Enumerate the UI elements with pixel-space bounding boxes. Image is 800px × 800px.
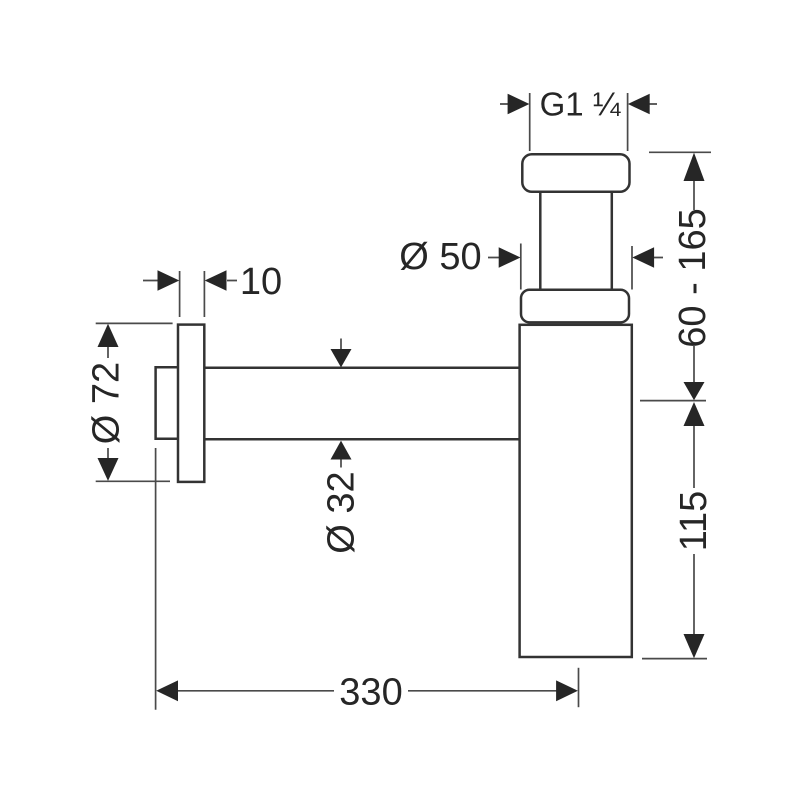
svg-text:G1 ¼: G1 ¼ — [540, 86, 621, 123]
svg-text:330: 330 — [339, 671, 402, 713]
top nut flange — [522, 154, 629, 192]
dim 10 right arrowhead — [205, 270, 227, 291]
wall pipe stub — [156, 367, 178, 439]
dim 115 bottom arrowhead — [684, 634, 705, 658]
dim 330 left extension line — [155, 448, 157, 710]
dim 60-165 top arrowhead — [684, 153, 705, 181]
horizontal outlet pipe — [204, 368, 519, 439]
lower collar flange — [521, 290, 629, 323]
dim 10 arrow tails — [143, 280, 237, 282]
dim 10 extension lines — [180, 271, 205, 317]
svg-text:115: 115 — [673, 491, 715, 552]
dim 115 dimension line — [693, 425, 695, 635]
dim 330 dimension line — [178, 690, 558, 692]
dim 330 right extension line — [578, 668, 580, 707]
dim G1 1/4 arrow tails — [500, 103, 657, 105]
dim O72 top arrowhead — [98, 324, 119, 347]
dim G1 1/4 left arrowhead — [508, 94, 530, 115]
svg-text:Ø 50: Ø 50 — [399, 236, 481, 278]
trap body cup — [520, 325, 632, 657]
dim 10 left arrowhead — [158, 270, 180, 291]
dim 330 right arrowhead — [556, 680, 578, 701]
dim G1 1/4 right arrowhead — [628, 94, 650, 115]
dim O72 bottom arrowhead — [98, 458, 119, 481]
dim 60-165 dimension line — [693, 180, 695, 383]
dim O72 dimension line — [107, 346, 109, 459]
dim O72 extension lines — [96, 323, 173, 481]
dim 60-165 bottom arrowhead — [684, 382, 705, 400]
dim 115 top arrowhead — [684, 402, 705, 426]
dim G1 1/4 extension lines — [530, 93, 628, 151]
svg-text:Ø 32: Ø 32 — [321, 471, 363, 553]
dim O50 left arrowhead — [499, 247, 521, 268]
dim O32 top arrowhead — [331, 349, 352, 367]
dim O50 extension lines — [521, 244, 632, 290]
dim O32 arrow tails — [340, 339, 342, 468]
svg-text:10: 10 — [240, 261, 282, 303]
dim 60-165 bottom extension line — [640, 400, 706, 402]
dim 115 bottom extension line — [642, 658, 707, 660]
dim 60-165 top extension line — [649, 151, 711, 153]
svg-text:Ø 72: Ø 72 — [86, 362, 128, 444]
dim O50 right arrowhead — [632, 247, 654, 268]
dim O50 arrow tails — [488, 257, 663, 259]
svg-text:60 - 165: 60 - 165 — [672, 208, 714, 347]
vertical inlet pipe — [540, 192, 612, 290]
dim O32 bottom arrowhead — [331, 441, 352, 460]
wall flange plate — [178, 325, 204, 482]
dim 330 left arrowhead — [156, 680, 178, 701]
